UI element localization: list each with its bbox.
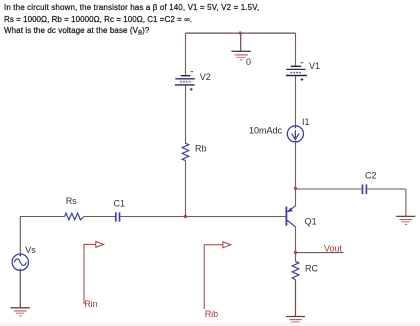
svg-text:0: 0 <box>246 57 251 67</box>
svg-text:V2: V2 <box>200 72 211 82</box>
wire V1 to I1 <box>295 76 297 126</box>
svg-text:C1: C1 <box>114 198 126 208</box>
bottom frame line <box>0 323 420 326</box>
svg-text:I1: I1 <box>302 117 310 127</box>
wire C1 to Q1 base <box>120 216 285 218</box>
capacitor C2 <box>363 171 377 195</box>
ground at RC <box>286 317 305 325</box>
resistor Rs <box>65 196 84 220</box>
wire RC to ground <box>295 280 297 316</box>
wire collector node down to Q1 emitter <box>295 189 297 207</box>
svg-text:Vout: Vout <box>324 243 343 253</box>
svg-text:Q1: Q1 <box>305 217 317 227</box>
wire Vs to ground <box>19 270 21 307</box>
wire C2 to corner <box>367 188 406 190</box>
ground at C2 <box>396 216 415 224</box>
svg-text:Vs: Vs <box>25 245 36 255</box>
ground 0 (top) <box>231 33 251 67</box>
battery V1 <box>286 61 320 81</box>
wire collector node to C2 <box>296 188 363 190</box>
svg-text:Rin: Rin <box>84 299 98 309</box>
node collector junction <box>294 187 297 190</box>
wire Rs to C1 <box>84 216 115 218</box>
svg-text:Rb: Rb <box>195 143 207 153</box>
svg-text:10mAdc: 10mAdc <box>249 125 283 135</box>
wire top rail <box>186 32 296 34</box>
source Vs <box>12 245 36 270</box>
wire V2 top stem <box>185 33 187 75</box>
node junction at top ground <box>239 31 242 34</box>
battery V2 <box>175 72 211 91</box>
wire Rb to base node <box>185 161 187 217</box>
wire corner down to ground <box>405 189 407 216</box>
marker Rin <box>84 242 104 310</box>
transistor Q1 <box>286 206 316 227</box>
wire V1 top stem <box>295 33 297 66</box>
wire V2 bottom to Rb <box>185 85 187 143</box>
marker Rib <box>204 242 231 319</box>
current source I1 <box>249 117 310 142</box>
svg-text:Rs: Rs <box>66 196 77 206</box>
node Vout junction <box>294 251 297 254</box>
wire Vout stub <box>296 252 344 254</box>
svg-text:Rib: Rib <box>205 309 219 319</box>
svg-text:C2: C2 <box>365 171 377 181</box>
node base junction <box>184 215 187 218</box>
capacitor C1 <box>114 198 126 221</box>
wire Q1 collector to Vout node <box>295 227 297 253</box>
svg-text:V1: V1 <box>309 61 320 71</box>
resistor Rb <box>182 143 206 160</box>
resistor RC <box>292 261 318 279</box>
wire Vout node to RC <box>295 253 297 262</box>
wire left end corner to Rs <box>20 217 64 255</box>
svg-text:RC: RC <box>305 263 318 273</box>
ground at Vs <box>11 308 30 316</box>
wire I1 to collector node <box>295 142 297 189</box>
